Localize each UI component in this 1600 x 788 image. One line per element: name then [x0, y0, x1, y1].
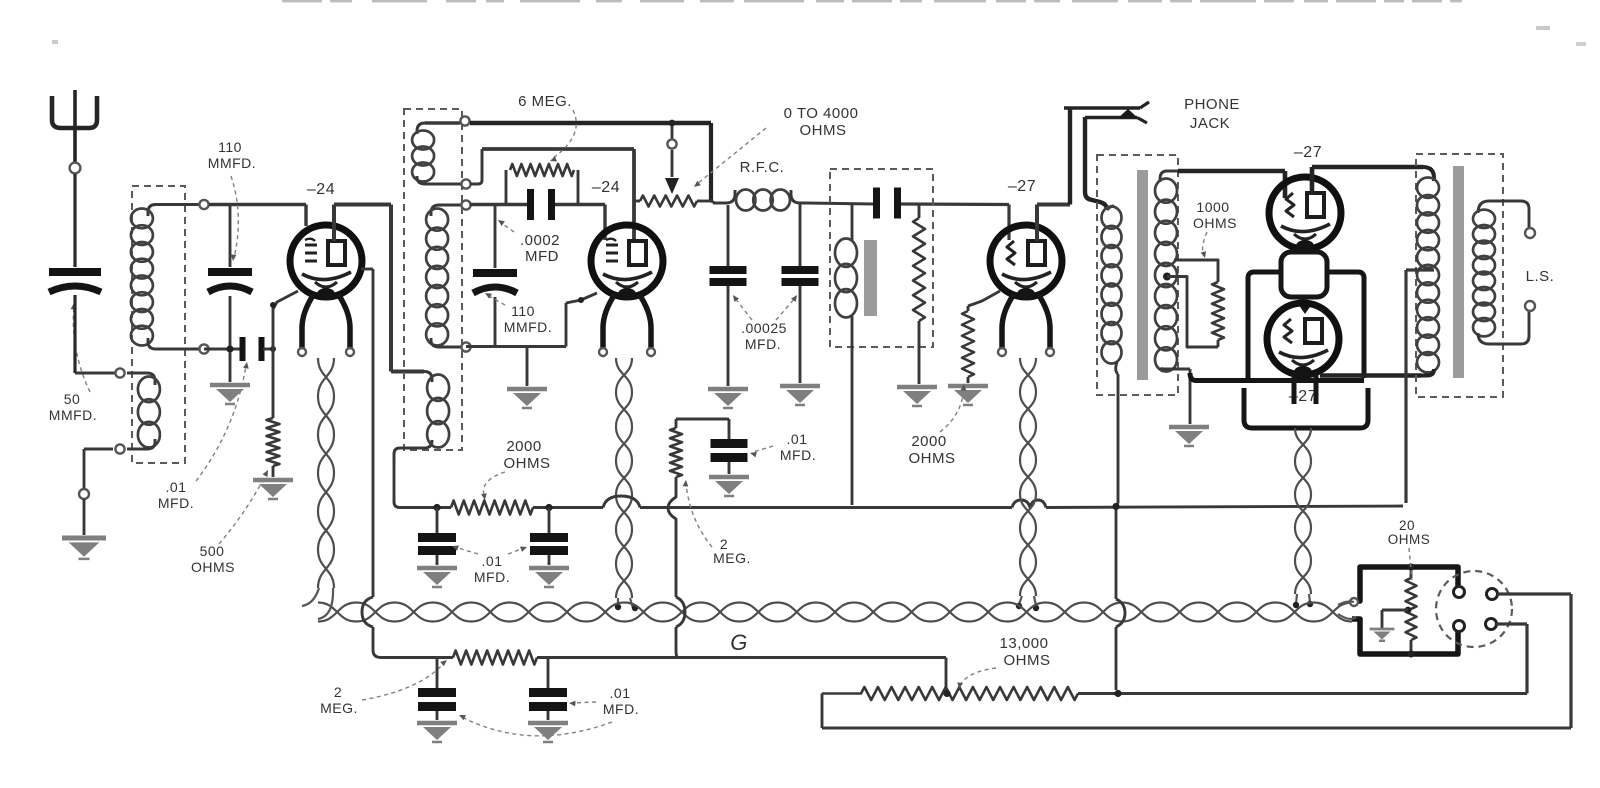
wire V5 plate: [1320, 373, 1421, 378]
label R.F.C.: [740, 159, 785, 176]
svg-text:6 MEG.: 6 MEG.: [518, 93, 572, 110]
svg-text:MFD.: MFD.: [603, 701, 639, 717]
terminal V2 fil right: [647, 348, 655, 356]
heater bus bracket: [1244, 388, 1368, 428]
terminal T2 c: [461, 200, 470, 209]
svg-text:2000: 2000: [506, 438, 541, 455]
leader .00025 a: [733, 295, 752, 320]
leader 2 MEG r6: [683, 480, 712, 547]
coil L1 secondary: [131, 205, 204, 350]
svg-text:PHONE: PHONE: [1184, 96, 1240, 113]
wire T4 primary bottom drop: [1116, 374, 1118, 507]
leader 20 OHMS: [1409, 548, 1412, 580]
twisted pair V3 heaters: [1019, 358, 1036, 606]
svg-text:G: G: [730, 630, 748, 655]
leader 110 MMFD det: [485, 293, 505, 305]
capacitor C2 110 MMFD: [208, 206, 252, 347]
node bias join: [1114, 690, 1121, 697]
svg-text:OHMS: OHMS: [1193, 215, 1237, 231]
label 0 TO 4000 OHMS: [784, 105, 859, 139]
wire pin3 out: [1497, 594, 1571, 728]
resistor R7 2000 OHMS: [962, 311, 974, 377]
transformer T2 dashed box: [404, 109, 462, 450]
terminal pair entry: [1338, 598, 1358, 619]
label 2000 OHMS v3: [909, 433, 956, 467]
ground G2: [210, 385, 250, 404]
plug dashed circle: [1436, 571, 1512, 647]
node R10 tap: [943, 690, 950, 697]
svg-text:MFD.: MFD.: [158, 495, 194, 511]
ground G12: [1169, 427, 1209, 446]
svg-text:MMFD.: MMFD.: [49, 407, 97, 423]
terminal V3 fil right: [1046, 348, 1054, 356]
label .01 MFD left: [158, 479, 194, 511]
wire V4 grid: [1178, 171, 1285, 198]
coil T4 primary: [1102, 206, 1122, 374]
coil L1 primary: [127, 373, 160, 449]
coil T3 primary: [835, 204, 857, 344]
plug pin 2: [1454, 621, 1465, 632]
svg-text:MMFD.: MMFD.: [504, 319, 552, 335]
node C10 junction: [545, 504, 552, 511]
label PHONE JACK: [1184, 96, 1240, 132]
node: ground junction: [79, 489, 89, 499]
svg-text:–24: –24: [307, 181, 335, 198]
node pair join b: [1016, 603, 1039, 611]
label .0002 MFD: [520, 232, 560, 265]
label G: [730, 630, 748, 655]
ground G3: [253, 480, 293, 499]
wire V1 screen: [361, 269, 373, 597]
rheostat R2 0-4000 OHMS: [640, 196, 712, 207]
wire V2 plate drop: [632, 149, 636, 241]
coil T2 secondary: [426, 205, 462, 347]
wire C1 to L1 primary: [75, 295, 116, 373]
wire T3 coil to B+ rail: [851, 344, 854, 505]
svg-text:OHMS: OHMS: [191, 559, 235, 575]
leader 13000: [957, 668, 996, 689]
capacitor C11 .01 MFD: [711, 439, 748, 474]
twisted pair main run: [318, 603, 1352, 622]
coil T2 top winding: [412, 123, 461, 184]
core T4: [1137, 170, 1148, 380]
terminal V1 fil left: [298, 348, 306, 356]
svg-text:.01: .01: [166, 479, 187, 495]
wire jack riser 2: [1085, 117, 1107, 210]
resistor R3 6 MEG: [506, 164, 578, 205]
terminal T2 a: [460, 116, 469, 125]
svg-text:110: 110: [218, 139, 242, 155]
ground G6: [780, 386, 820, 405]
terminal L1 primary top: [115, 368, 124, 377]
capacitor C12 .01 MFD: [418, 658, 456, 721]
wire B+ rail: [404, 496, 1403, 508]
capacitor C5 110 MMFD: [473, 206, 517, 345]
label V5 -27: [1289, 388, 1317, 405]
grid coupling box: [1281, 252, 1327, 314]
node wiper tap: [669, 120, 676, 127]
phone jack contacts: [1064, 102, 1149, 123]
svg-text:1000: 1000: [1196, 199, 1229, 215]
wire V3 cathode: [968, 291, 1000, 311]
leader .01 bottom a: [569, 701, 596, 707]
wire antenna to C1: [73, 174, 76, 267]
svg-text:JACK: JACK: [1190, 115, 1230, 132]
coil T5 primary: [1417, 167, 1439, 376]
label 20 OHMS: [1388, 518, 1431, 547]
label .01 MFD right: [780, 431, 816, 463]
terminal T2 b: [461, 179, 470, 188]
label 110 MMFD: [208, 139, 256, 171]
core T3: [864, 240, 877, 316]
wire R6 hop join: [676, 597, 685, 658]
svg-text:0 TO 4000: 0 TO 4000: [784, 105, 859, 122]
ground G4: [507, 389, 547, 408]
leader .01 bottom b: [459, 715, 612, 736]
tube V3 -27: [990, 225, 1062, 300]
leader .01 mid b: [508, 547, 527, 555]
node pair join a: [615, 604, 638, 611]
svg-text:MFD: MFD: [525, 248, 559, 265]
leader 110 MMFD: [231, 176, 239, 261]
label .01 MFD bottom: [603, 685, 639, 717]
resistor R5 2000 OHMS: [451, 501, 533, 515]
wire V3 grid: [1007, 205, 1010, 241]
antenna: [52, 90, 97, 162]
wire C3 to cathode line: [263, 348, 273, 351]
label 2000 OHMS: [504, 438, 551, 472]
leader .0002: [498, 220, 514, 232]
terminal V2 fil left: [599, 348, 607, 356]
transformer T3 dashed box: [830, 169, 933, 347]
node B+ rail join: [1112, 503, 1119, 510]
wire rheostat to RFC: [711, 201, 715, 203]
terminal L1 primary bottom: [115, 444, 124, 453]
tube V2 -24: [591, 225, 663, 300]
svg-text:OHMS: OHMS: [1004, 652, 1051, 669]
svg-text:.01: .01: [610, 685, 631, 701]
wire R1 to ground: [272, 466, 275, 477]
node: antenna junction: [70, 163, 81, 174]
leader 1000 OHMS: [1201, 232, 1207, 258]
ground G7: [897, 387, 937, 406]
wire B+ top: [470, 121, 711, 126]
heater legs V5: [1294, 372, 1316, 404]
ground G1: [62, 538, 106, 559]
svg-text:50: 50: [64, 391, 81, 407]
ground G13: [417, 723, 457, 742]
transformer T1 dashed box: [132, 186, 185, 463]
node pair join c: [1293, 601, 1313, 608]
svg-text:20: 20: [1399, 518, 1415, 533]
node C9 junction: [433, 504, 440, 511]
heater legs V2: [603, 294, 651, 350]
tube V1 -24: [290, 225, 362, 300]
svg-text:.01: .01: [482, 553, 503, 569]
ground G9: [529, 568, 569, 587]
svg-text:–27: –27: [1008, 178, 1036, 195]
leader 2000 OHMS: [481, 472, 505, 500]
wire screen drop hop: [362, 597, 386, 658]
label V2 -24: [592, 179, 620, 196]
twisted pair V4V5 heaters: [1295, 428, 1311, 604]
node cathode junction: [270, 346, 276, 352]
label .00025 MFD: [741, 320, 787, 352]
wire node A to ground: [229, 352, 232, 382]
ground G8: [417, 568, 457, 587]
resistor R1 500 OHMS: [267, 418, 280, 466]
leader 2000 v3: [940, 384, 966, 432]
svg-text:OHMS: OHMS: [800, 122, 847, 139]
wire tap to ground: [1382, 610, 1408, 628]
wire V1 cathode: [270, 291, 298, 418]
svg-text:MFD.: MFD.: [780, 447, 816, 463]
wire jack riser 1: [1068, 108, 1072, 205]
svg-text:L.S.: L.S.: [1526, 268, 1555, 285]
box 20 ohms: [1352, 567, 1458, 654]
resistor R6 2 MEG: [668, 419, 682, 597]
transformer T5 dashed box: [1416, 154, 1503, 397]
wire to ground G1: [83, 499, 86, 535]
svg-text:MEG.: MEG.: [320, 700, 358, 716]
label V3 -27: [1008, 178, 1036, 195]
resistor R4 2 MEG vertical: [913, 204, 925, 384]
capacitor C7 .00025 MFD: [782, 204, 819, 383]
svg-text:OHMS: OHMS: [909, 450, 956, 467]
svg-text:2: 2: [334, 684, 342, 700]
wire L1 sec top to tube V1 grid: [209, 205, 306, 227]
transformer T4 dashed box: [1097, 155, 1178, 395]
terminal L1 sec bottom: [199, 344, 208, 353]
rheostat wiper: [665, 126, 679, 194]
terminal V1 fil right: [346, 348, 354, 356]
node R11 tap: [1405, 607, 1412, 614]
terminal T2 d: [461, 342, 470, 351]
label V4 -27: [1294, 144, 1322, 161]
coil T2 primary: [394, 372, 449, 461]
capacitor C13 .01 MFD: [529, 658, 567, 721]
svg-text:–24: –24: [592, 179, 620, 196]
wire T4 sec bottom to ground: [1189, 369, 1192, 424]
capacitor C10 .01 MFD: [530, 508, 568, 566]
label L.S.: [1526, 268, 1555, 285]
wire pin4 out: [1496, 624, 1527, 694]
wire L1 sec bottom node: [204, 348, 241, 351]
grid return bracket: [1248, 272, 1364, 378]
svg-text:OHMS: OHMS: [1388, 532, 1431, 547]
wire to ground G4: [526, 347, 529, 387]
heater legs V1: [302, 294, 350, 350]
capacitor C6 .00025 MFD: [710, 205, 747, 386]
leader .01 mid a: [452, 546, 478, 555]
ground G11: [948, 386, 988, 405]
leader .00025 b: [776, 295, 797, 320]
label 2 MEG r6: [713, 536, 751, 566]
wire RFC to detector line: [806, 203, 1009, 205]
label V1 -24: [307, 181, 335, 198]
wire phone B join hop: [1116, 507, 1125, 691]
wire bracket bottom: [1190, 373, 1364, 381]
node A junction: [226, 345, 233, 352]
wire 13000 left drop: [822, 694, 1571, 729]
leader 500 OHMS: [219, 470, 268, 544]
wire T2 primary bottom to B+ rail: [394, 458, 404, 508]
tube V5 -27: [1267, 303, 1339, 378]
wire bias rail: [381, 658, 1078, 701]
svg-text:.0002: .0002: [520, 232, 560, 249]
ground G15: [1370, 629, 1395, 641]
capacitor C4 .0002 MFD: [527, 189, 555, 220]
plug pin 1: [1454, 587, 1465, 598]
label 50 MMFD: [49, 391, 97, 423]
ground G14: [528, 723, 568, 742]
wire R7 to ground: [967, 377, 970, 383]
coil T5 secondary: [1473, 201, 1529, 344]
node rheostat tap: [634, 200, 640, 203]
resistor R11 20 OHMS: [1406, 567, 1417, 654]
svg-text:OHMS: OHMS: [504, 455, 551, 472]
terminal wiper: [667, 139, 676, 148]
terminal L1 sec top: [199, 200, 208, 209]
wire V4 plate: [1312, 167, 1423, 195]
terminal V3 fil left: [998, 348, 1006, 356]
svg-text:.01: .01: [787, 431, 808, 447]
svg-text:110: 110: [511, 303, 535, 319]
wire T5 center tap: [1406, 270, 1434, 503]
svg-text:500: 500: [200, 543, 225, 559]
svg-text:13,000: 13,000: [1000, 635, 1049, 652]
RFC choke: [713, 190, 806, 211]
plug pin 3: [1487, 589, 1498, 600]
wire grid-leak riser: [470, 149, 634, 184]
wire V3 plate to jack: [1037, 205, 1070, 242]
cropped caption text at top edge: [52, 0, 1586, 46]
label 110 MMFD det: [504, 303, 552, 335]
svg-text:MMFD.: MMFD.: [208, 155, 256, 171]
label 6 MEG: [518, 93, 572, 110]
ground G5: [708, 389, 748, 408]
label .01 MFD mid: [474, 553, 510, 585]
resistor R8 1000 OHMS: [1167, 260, 1224, 347]
wire detector grid line: [470, 205, 605, 241]
wire T2 top coil to B+ terminal: [425, 121, 460, 124]
terminal LS bottom: [1525, 301, 1535, 311]
capacitor C1 50 MMFD: [49, 268, 101, 292]
svg-text:.00025: .00025: [741, 320, 787, 336]
capacitor C9 .01 MFD: [418, 508, 456, 566]
label 500 OHMS: [191, 543, 235, 575]
wire V1 plate drop: [391, 205, 424, 372]
wire V1 plate top-cap: [334, 205, 391, 242]
label 1000 OHMS: [1193, 199, 1237, 231]
twisted pair V2 heaters: [616, 358, 633, 608]
leader .01 MFD left: [196, 362, 249, 481]
resistor R9 2 MEG bottom: [453, 651, 537, 665]
leader 6 MEG: [550, 110, 576, 162]
heater legs V3: [1002, 294, 1050, 350]
wire L1 primary bottom to ground: [84, 449, 113, 489]
node R11 bottom: [1407, 650, 1414, 657]
wire B+ drop to rheostat: [709, 123, 713, 201]
core T5: [1453, 166, 1464, 378]
tube V4 -27: [1269, 177, 1341, 252]
capacitor C8 series: [873, 188, 901, 219]
wire V2 cathode return: [466, 293, 597, 347]
wire 13000 right: [1078, 692, 1527, 695]
plug pin 4: [1486, 619, 1497, 630]
svg-text:R.F.C.: R.F.C.: [740, 159, 785, 176]
coil T4 secondary: [1155, 171, 1190, 372]
node 1000 ohm tap: [1163, 273, 1171, 281]
svg-text:MFD.: MFD.: [745, 336, 781, 352]
wire R6 top to C11: [676, 419, 729, 439]
svg-text:–27: –27: [1294, 144, 1322, 161]
leader 2 MEG bottom: [362, 660, 447, 700]
node R11 top: [1407, 563, 1414, 570]
svg-text:MFD.: MFD.: [474, 569, 510, 585]
svg-text:MEG.: MEG.: [713, 550, 751, 566]
leader 50 MMFD: [71, 303, 90, 392]
resistor R10 13000 OHMS label: [1000, 635, 1051, 669]
leader .01 right: [750, 446, 773, 457]
terminal LS top: [1525, 228, 1535, 238]
capacitor C3 .01 MFD series: [240, 337, 265, 361]
twisted pair V1 heaters: [302, 358, 334, 619]
leader 0 TO 4000: [694, 128, 766, 187]
ground G10: [709, 477, 749, 496]
label 2 MEG bottom: [320, 684, 358, 716]
svg-text:2000: 2000: [911, 433, 946, 450]
